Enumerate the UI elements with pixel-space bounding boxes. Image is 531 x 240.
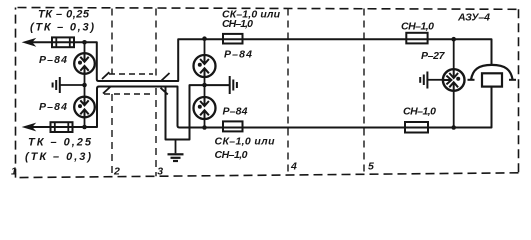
wire lamp1 top lead bbox=[84, 42, 86, 53]
svg-text:Р–27: Р–27 bbox=[421, 50, 446, 62]
fuse TK-0,25 bottom bbox=[51, 122, 73, 132]
section divider 1|2 bbox=[111, 9, 113, 177]
node: junction dot ground tap bbox=[82, 83, 87, 88]
svg-text:Р–84: Р–84 bbox=[223, 106, 248, 118]
lamp P-84 #2 bbox=[74, 97, 95, 118]
earth stub bbox=[175, 140, 177, 154]
fuse TK-0,25 top bbox=[52, 37, 74, 47]
svg-text:5: 5 bbox=[368, 161, 374, 173]
svg-text:(ТК – 0,3): (ТК – 0,3) bbox=[30, 22, 94, 34]
wire A: top line left, cord upper conductor, top bus to phone bbox=[30, 39, 492, 81]
earth ground symbol section 3 bbox=[168, 154, 184, 161]
lamp P-84 #4 bbox=[194, 97, 216, 119]
section divider 3|4 bbox=[287, 9, 289, 175]
ground (sideways) P-27 bbox=[420, 72, 427, 89]
wire B: bottom line left, cord lower conductor, bottom bus to phone bbox=[30, 87, 492, 128]
wire between lamps 3-4 bbox=[204, 77, 206, 98]
node: junction dot P-27 bottom bbox=[451, 125, 456, 130]
connector tick wire A left bbox=[102, 72, 109, 79]
svg-text:СН–1,0: СН–1,0 bbox=[215, 149, 248, 161]
ground (sideways) lamps midpoint section 3 bbox=[230, 76, 237, 94]
ground (sideways) section 1 bbox=[53, 77, 60, 93]
wire ground loop section 3 (U path to lamps midpoint) bbox=[166, 85, 230, 139]
svg-text:ТК – 0,25: ТК – 0,25 bbox=[28, 137, 92, 149]
wire lamp2 bottom lead bbox=[84, 117, 86, 127]
svg-text:СН–1,0: СН–1,0 bbox=[401, 21, 434, 33]
wire between lamps 1-2 bbox=[84, 74, 86, 97]
lamp P-84 #1 bbox=[74, 53, 95, 74]
connector tick wire B right bbox=[161, 88, 168, 95]
wire lamp P-27 top lead bbox=[453, 39, 455, 69]
connector tick wire B left bbox=[103, 87, 110, 94]
arrow (line out) top left bbox=[23, 39, 35, 46]
lamp P-84 #3 bbox=[194, 55, 216, 77]
svg-text:(ТК – 0,3): (ТК – 0,3) bbox=[25, 151, 91, 163]
node: junction dot fuse/lamp1 top bbox=[82, 40, 87, 45]
node: junction dot lamp2 bottom bbox=[82, 125, 87, 130]
telephone earpiece AZU-4 bbox=[468, 65, 517, 87]
wire lamp3 top lead bbox=[204, 39, 206, 56]
svg-text:ТК – 0,25: ТК – 0,25 bbox=[38, 9, 90, 21]
svg-text:2: 2 bbox=[113, 166, 120, 178]
svg-text:СН–1,0: СН–1,0 bbox=[222, 18, 253, 30]
node: junction dot lamp4 bottom bbox=[202, 125, 207, 130]
connector tick wire A right bbox=[162, 73, 170, 81]
fuse SK-1,0 top bbox=[223, 34, 243, 44]
svg-text:СН–1,0: СН–1,0 bbox=[403, 106, 436, 118]
arrow (line out) bottom left bbox=[23, 123, 35, 130]
svg-text:3: 3 bbox=[157, 166, 163, 178]
node: junction dot lamp3 top bbox=[202, 36, 207, 41]
wire ground tap P-27 bbox=[428, 79, 443, 81]
cord contour dashed top bbox=[109, 73, 153, 75]
svg-text:4: 4 bbox=[290, 161, 297, 173]
fuse SN-1,0 top right bbox=[406, 33, 427, 44]
section divider 2|3 bbox=[155, 9, 157, 177]
svg-text:АЗУ–4: АЗУ–4 bbox=[457, 12, 490, 24]
node: junction dot lamps midpoint bbox=[202, 83, 207, 88]
wire lamp4 bottom lead bbox=[204, 119, 206, 128]
cord contour dashed bottom bbox=[104, 93, 154, 95]
node: junction dot P-27 top bbox=[451, 37, 456, 42]
outer dashed border bbox=[16, 8, 519, 178]
fuse SK-1,0 bottom bbox=[223, 121, 243, 131]
fuse SN-1,0 bottom right bbox=[405, 122, 428, 133]
svg-text:1: 1 bbox=[11, 166, 17, 178]
lamp P-27 bbox=[443, 69, 465, 91]
section divider 4|5 bbox=[363, 9, 365, 175]
wire lamp P-27 bottom lead bbox=[453, 91, 455, 128]
wire ground tap section 1 bbox=[60, 84, 85, 86]
svg-text:СК–1,0 или: СК–1,0 или bbox=[215, 135, 276, 147]
